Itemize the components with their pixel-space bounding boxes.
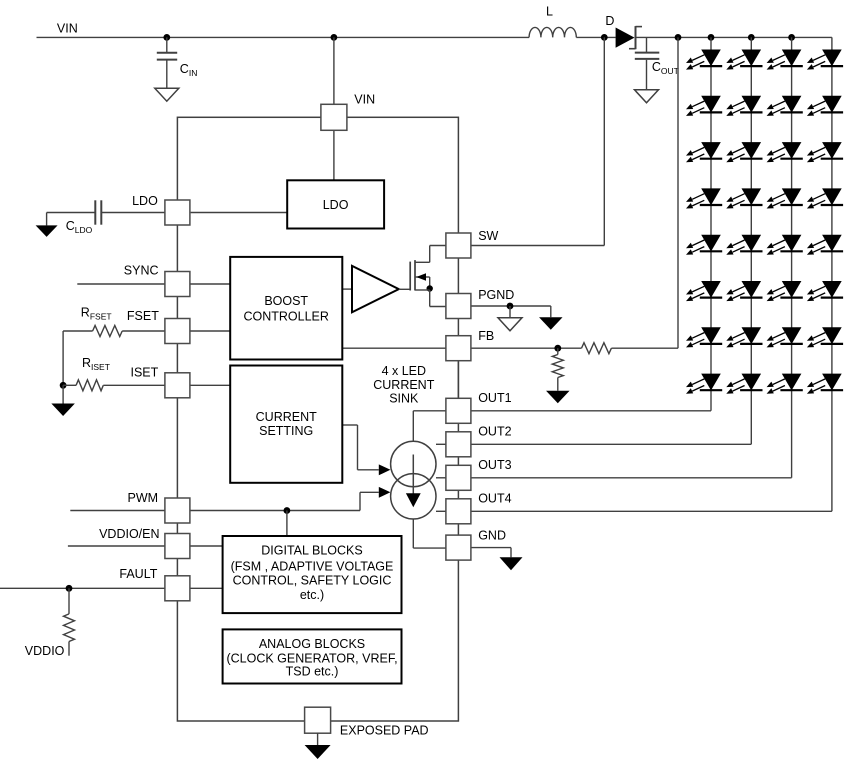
- svg-text:TSD etc.): TSD etc.): [286, 665, 339, 679]
- svg-text:VIN: VIN: [354, 93, 375, 107]
- svg-text:OUT2: OUT2: [478, 425, 511, 439]
- svg-text:etc.): etc.): [300, 588, 324, 602]
- svg-text:LDO: LDO: [323, 198, 349, 212]
- svg-text:DIGITAL BLOCKS: DIGITAL BLOCKS: [261, 543, 362, 557]
- svg-text:PWM: PWM: [128, 491, 159, 505]
- svg-text:OUT4: OUT4: [478, 492, 511, 506]
- svg-text:CURRENT: CURRENT: [256, 410, 317, 424]
- svg-text:D: D: [605, 14, 614, 28]
- svg-text:ANALOG BLOCKS: ANALOG BLOCKS: [259, 637, 365, 651]
- svg-text:FB: FB: [478, 329, 494, 343]
- svg-text:EXPOSED PAD: EXPOSED PAD: [340, 724, 429, 738]
- svg-text:CURRENT: CURRENT: [373, 378, 434, 392]
- svg-text:SINK: SINK: [389, 391, 419, 405]
- svg-text:FSET: FSET: [127, 309, 159, 323]
- svg-text:4 x LED: 4 x LED: [382, 364, 426, 378]
- svg-text:SETTING: SETTING: [259, 424, 313, 438]
- svg-text:ISET: ISET: [131, 366, 159, 380]
- svg-text:FAULT: FAULT: [119, 567, 157, 581]
- svg-text:CONTROLLER: CONTROLLER: [243, 309, 328, 323]
- svg-text:SW: SW: [478, 229, 498, 243]
- svg-text:LDO: LDO: [132, 194, 158, 208]
- svg-text:L: L: [546, 5, 553, 19]
- svg-text:(CLOCK GENERATOR, VREF,: (CLOCK GENERATOR, VREF,: [226, 651, 397, 665]
- svg-text:VDDIO: VDDIO: [25, 644, 65, 658]
- svg-text:SYNC: SYNC: [124, 264, 159, 278]
- svg-text:BOOST: BOOST: [264, 294, 308, 308]
- svg-text:OUT1: OUT1: [478, 391, 511, 405]
- svg-text:VIN: VIN: [57, 22, 78, 36]
- svg-text:(FSM , ADAPTIVE VOLTAGE: (FSM , ADAPTIVE VOLTAGE: [231, 560, 394, 574]
- svg-text:OUT3: OUT3: [478, 458, 511, 472]
- svg-text:PGND: PGND: [478, 288, 514, 302]
- svg-text:VDDIO/EN: VDDIO/EN: [99, 527, 159, 541]
- svg-text:GND: GND: [478, 528, 506, 542]
- svg-text:CONTROL, SAFETY LOGIC: CONTROL, SAFETY LOGIC: [233, 574, 392, 588]
